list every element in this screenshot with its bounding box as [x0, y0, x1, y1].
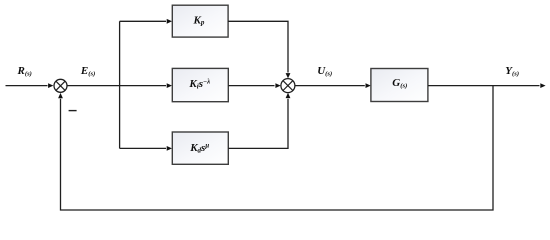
block G [371, 69, 428, 102]
wire sum1 to Ki block [67, 85, 166, 87]
wire Kp out to sum2 (right then down) [228, 21, 288, 72]
block Kp [172, 5, 228, 37]
block Kd [172, 132, 228, 164]
minus sign [69, 110, 77, 112]
wire G out to Y (with branch) [428, 85, 540, 87]
wire branch vertical [119, 21, 121, 148]
svg-text:Y(s): Y(s) [505, 65, 519, 78]
wire Ki out to sum2 [228, 85, 274, 87]
block Ki [172, 68, 228, 101]
summing junction sum2 [281, 79, 295, 93]
wire Kd out to sum2 (right then up) [228, 99, 288, 149]
wire sum2 to G block [295, 85, 365, 87]
svg-text:R(s): R(s) [17, 65, 32, 78]
wire input R to sum1 [6, 85, 48, 87]
wire branch to Kd [120, 147, 166, 149]
wire feedback: branch down, across bottom, up into sum1 [61, 86, 494, 210]
svg-text:E(s): E(s) [80, 65, 95, 78]
summing junction sum1 [54, 79, 67, 92]
svg-text:U(s): U(s) [317, 65, 332, 78]
wire branch to Kp [120, 20, 166, 22]
